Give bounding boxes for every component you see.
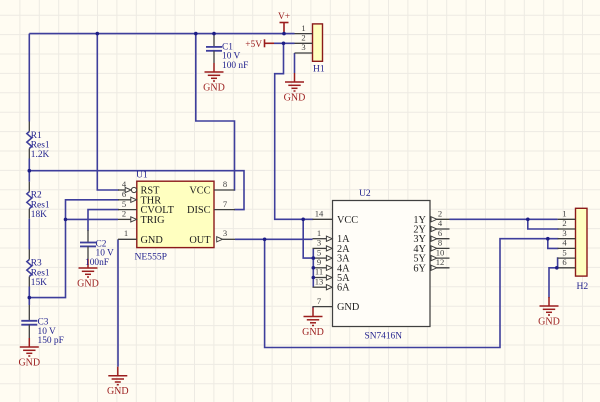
svg-text:V+: V+: [278, 12, 290, 22]
svg-text:1: 1: [317, 228, 321, 238]
svg-text:NE555P: NE555P: [135, 252, 168, 263]
svg-text:7: 7: [317, 296, 322, 306]
svg-text:9: 9: [317, 257, 321, 267]
svg-text:TRIG: TRIG: [141, 215, 166, 226]
svg-text:GND: GND: [538, 317, 560, 328]
svg-text:6: 6: [122, 189, 127, 199]
svg-text:GND: GND: [77, 279, 99, 290]
svg-text:GND: GND: [302, 327, 324, 338]
svg-text:R1: R1: [31, 131, 42, 141]
svg-text:10: 10: [436, 247, 445, 257]
svg-text:2: 2: [562, 218, 566, 228]
svg-text:1: 1: [301, 23, 305, 33]
svg-text:6: 6: [562, 257, 567, 267]
svg-text:4: 4: [122, 179, 127, 189]
svg-text:2: 2: [438, 209, 442, 219]
svg-text:Res1: Res1: [31, 200, 50, 210]
svg-text:18K: 18K: [31, 210, 47, 220]
svg-text:2: 2: [122, 209, 126, 219]
svg-text:GND: GND: [18, 358, 40, 369]
svg-text:8: 8: [438, 238, 442, 248]
svg-text:GND: GND: [107, 386, 129, 397]
svg-text:DISC: DISC: [187, 205, 211, 216]
svg-text:Res1: Res1: [31, 268, 50, 278]
svg-text:3: 3: [317, 238, 321, 248]
svg-text:3: 3: [562, 228, 566, 238]
svg-text:14: 14: [315, 209, 324, 219]
svg-text:GND: GND: [141, 235, 164, 246]
svg-text:4: 4: [438, 218, 443, 228]
svg-text:1: 1: [124, 228, 128, 238]
svg-text:H2: H2: [577, 281, 589, 292]
svg-text:100 nF: 100 nF: [222, 61, 248, 71]
svg-text:+5V: +5V: [245, 40, 262, 50]
svg-text:100nF: 100nF: [85, 258, 109, 268]
svg-text:11: 11: [315, 267, 323, 277]
svg-text:R2: R2: [31, 191, 42, 201]
svg-text:1.2K: 1.2K: [31, 150, 50, 160]
svg-text:OUT: OUT: [189, 235, 211, 246]
svg-text:6A: 6A: [337, 283, 350, 294]
svg-text:8: 8: [223, 179, 227, 189]
svg-text:5: 5: [317, 247, 321, 257]
svg-text:GND: GND: [337, 302, 360, 313]
svg-text:SN7416N: SN7416N: [365, 332, 403, 342]
svg-text:13: 13: [315, 276, 324, 286]
svg-text:6: 6: [438, 228, 443, 238]
svg-text:VCC: VCC: [337, 215, 358, 226]
svg-text:R3: R3: [31, 259, 42, 269]
svg-text:7: 7: [223, 199, 228, 209]
svg-text:Res1: Res1: [31, 141, 50, 151]
svg-text:GND: GND: [203, 83, 225, 94]
svg-text:GND: GND: [284, 93, 306, 104]
svg-text:U2: U2: [359, 188, 371, 199]
svg-text:H1: H1: [313, 64, 325, 75]
svg-text:150 pF: 150 pF: [38, 336, 64, 346]
svg-text:1: 1: [562, 209, 566, 219]
svg-text:5: 5: [122, 199, 126, 209]
svg-text:2: 2: [301, 33, 305, 43]
svg-text:15K: 15K: [31, 278, 47, 288]
svg-text:U1: U1: [136, 170, 148, 181]
svg-text:12: 12: [436, 257, 445, 267]
svg-text:3: 3: [223, 228, 227, 238]
svg-text:3: 3: [301, 42, 305, 52]
svg-text:5: 5: [562, 247, 566, 257]
svg-text:6Y: 6Y: [413, 263, 426, 274]
svg-text:4: 4: [562, 238, 567, 248]
svg-text:VCC: VCC: [189, 186, 210, 197]
